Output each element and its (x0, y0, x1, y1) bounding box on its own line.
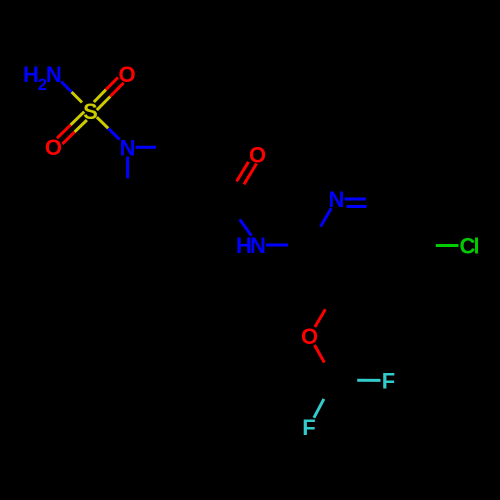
svg-text:S: S (83, 99, 98, 124)
amide bond C-N (visible half) (240, 219, 252, 235)
double bond S=O upper, line b (94, 90, 106, 102)
carbonyl double bond C=O, line a (244, 164, 257, 185)
bond amide N - pyridine C2 (visible half) (266, 244, 288, 247)
carbonyl double bond C=O, line b (237, 162, 249, 182)
pyridine bond C2-N1 (visible half) (321, 208, 332, 226)
svg-text:l: l (473, 234, 479, 259)
svg-text:F: F (302, 415, 315, 440)
svg-text:N: N (120, 135, 136, 160)
svg-text:N: N (329, 187, 345, 212)
pyridine double bond N1=C6 main line (visible half) (345, 198, 366, 201)
double bond S=O lower, line b (75, 120, 87, 132)
svg-text:O: O (301, 324, 318, 349)
pyridine double bond N1=C6 inner line (visible half) (347, 205, 367, 208)
azetidine bond N1-C2 (visible half) (136, 146, 157, 149)
double bond S=O lower, line a (71, 112, 85, 125)
svg-text:F: F (382, 369, 395, 394)
bond S-N azetidine (97, 117, 108, 128)
bond H2N-S (61, 82, 71, 92)
azetidine bond N1-C4 (visible half) (126, 157, 129, 179)
bond O-CHF2 (visible half) (315, 345, 325, 363)
bond C-F right (visible half) (357, 379, 380, 382)
bond C5-Cl (visible half) (436, 244, 459, 247)
svg-text:N: N (250, 233, 266, 258)
svg-text:O: O (45, 135, 62, 160)
bond C-F lower (visible half) (314, 399, 324, 418)
svg-text:H: H (23, 62, 39, 87)
bond C3-O ether (visible half) (315, 309, 326, 327)
svg-text:O: O (118, 62, 135, 87)
svg-text:O: O (249, 143, 266, 168)
double bond S=O upper, line a (97, 97, 110, 111)
svg-text:N: N (46, 62, 62, 87)
